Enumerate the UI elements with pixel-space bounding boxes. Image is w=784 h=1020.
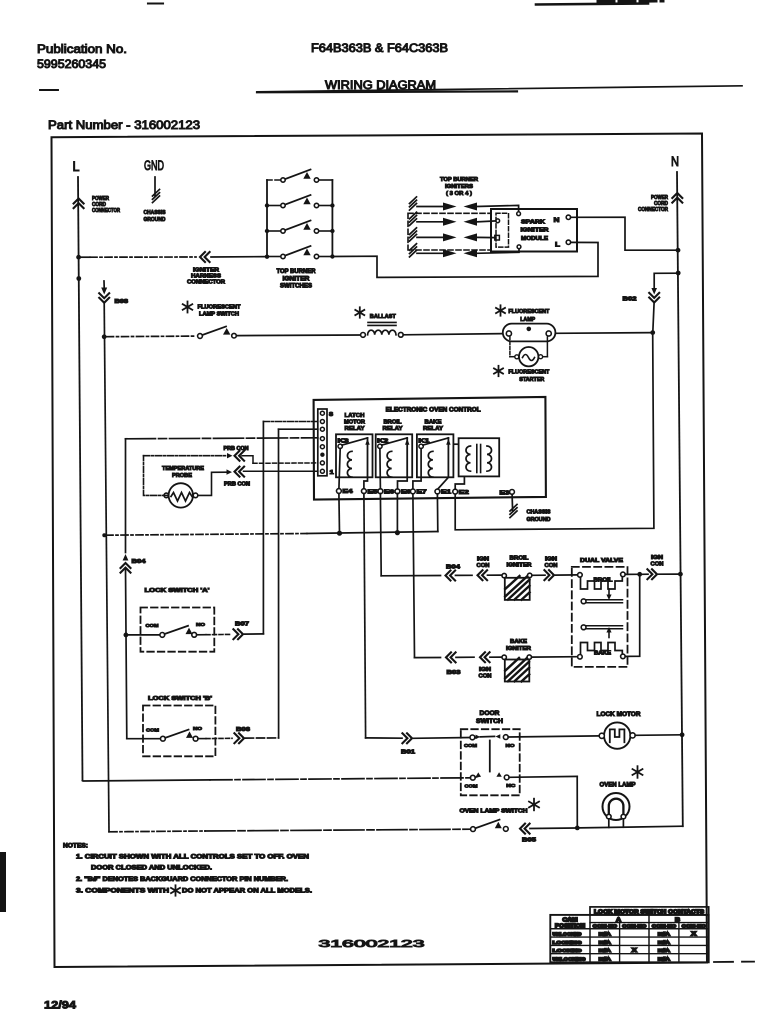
- svg-text:LOCK SWITCH 'B': LOCK SWITCH 'B': [148, 696, 213, 702]
- oven lamp DS1: [637, 766, 639, 778]
- svg-text:B02: B02: [623, 297, 637, 303]
- wire main row to switch bank: [211, 256, 267, 258]
- svg-text:N/A: N/A: [658, 932, 671, 938]
- svg-text:N: N: [671, 154, 679, 169]
- connector B06 chevron: [234, 733, 244, 743]
- EOC terminal E9: [395, 489, 400, 494]
- wire igniter 2 to module: [477, 220, 496, 223]
- svg-text:BAKE: BAKE: [594, 651, 612, 657]
- junction switch rails: [265, 203, 269, 207]
- top burner igniter 2 (spark gap): [410, 212, 417, 219]
- top burner igniter 1 (spark gap): [410, 197, 417, 204]
- junction L rail / main row: [76, 255, 81, 260]
- svg-text:B08: B08: [115, 299, 129, 305]
- svg-text:OVEN LAMP SWITCH: OVEN LAMP SWITCH: [460, 809, 528, 815]
- svg-text:GROUND: GROUND: [144, 217, 166, 223]
- svg-text:CONNECTOR: CONNECTOR: [638, 207, 668, 213]
- svg-text:B07: B07: [235, 622, 249, 628]
- wire broil valve to N rail: [625, 573, 637, 575]
- wire pin2 probe connection: [253, 462, 318, 464]
- wire E6 to broil igniter row: [379, 494, 382, 576]
- svg-text:DUAL VALVE: DUAL VALVE: [580, 558, 623, 564]
- svg-text:BAKE: BAKE: [425, 420, 442, 426]
- relay K2: [376, 434, 413, 477]
- svg-text:CON: CON: [479, 674, 492, 680]
- transformer T1: [459, 438, 500, 476]
- relay K3: [336, 434, 373, 477]
- ballast: [359, 307, 361, 317]
- connector B04 chevron: [123, 554, 129, 561]
- svg-text:POSITION: POSITION: [555, 924, 585, 930]
- svg-text:COM-NO: COM-NO: [682, 924, 707, 929]
- bake valve solenoid: [581, 625, 586, 630]
- door switch upper contact COM-NO: [470, 735, 475, 740]
- svg-text:LATCH: LATCH: [345, 413, 365, 419]
- svg-text:B04: B04: [132, 559, 147, 565]
- svg-text:DOOR CLOSED AND UNLOCKED.: DOOR CLOSED AND UNLOCKED.: [91, 865, 212, 871]
- svg-text:COM-NC: COM-NC: [593, 924, 618, 929]
- wire pin1 probe connection: [244, 470, 318, 472]
- svg-text:IGNITER: IGNITER: [506, 646, 531, 652]
- svg-text:CON: CON: [545, 563, 558, 569]
- svg-text:E2: E2: [459, 490, 469, 496]
- svg-text:E4: E4: [343, 489, 353, 495]
- svg-text:COM-NC: COM-NC: [652, 924, 677, 929]
- door switch mechanical link: [489, 741, 491, 772]
- EOC terminal E1: [435, 489, 440, 494]
- svg-text:FLUORESCENT: FLUORESCENT: [508, 309, 550, 315]
- wire E3 to chassis ground: [511, 494, 514, 511]
- wire to oven lamp and N rail: [580, 826, 683, 828]
- svg-text:FLUORESCENT: FLUORESCENT: [508, 370, 550, 376]
- dashed enclosure around igniters: [408, 213, 491, 250]
- svg-text:IGNITERS: IGNITERS: [445, 184, 473, 190]
- svg-text:PRB CON: PRB CON: [224, 446, 249, 452]
- svg-text:IGN: IGN: [477, 557, 489, 563]
- junction E4 / node line: [338, 493, 341, 533]
- wire L rail to door switch lower COM: [83, 780, 211, 781]
- wire switch to ballast: [236, 334, 360, 337]
- svg-text:CHASSIS: CHASSIS: [527, 510, 551, 516]
- fluorescent lamp switch: [187, 302, 189, 313]
- wire B02 branch to fluorescent row: [654, 273, 678, 288]
- svg-text:N/A: N/A: [658, 940, 671, 946]
- wire probe upper loop: [144, 456, 169, 496]
- svg-text:BAKE: BAKE: [510, 639, 527, 645]
- scan artifact black bar left edge: [0, 852, 6, 912]
- svg-text:MOTOR: MOTOR: [344, 420, 365, 426]
- svg-text:COM: COM: [464, 743, 477, 749]
- top burner igniter 4 (spark gap): [410, 244, 417, 251]
- svg-text:( 3 OR 4 ): ( 3 OR 4 ): [446, 191, 472, 197]
- EOC terminal E5: [362, 489, 367, 494]
- connector B04 chevron broil row: [446, 571, 456, 581]
- svg-text:CON: CON: [477, 563, 490, 569]
- wire probe lower loop: [198, 472, 227, 495]
- svg-text:UNLOCKED: UNLOCKED: [553, 932, 583, 938]
- svg-text:IGNITER: IGNITER: [283, 276, 311, 282]
- svg-text:L: L: [73, 159, 80, 174]
- svg-text:BROIL: BROIL: [510, 556, 530, 562]
- svg-text:Publication No.: Publication No.: [37, 44, 127, 56]
- svg-text:TOP BURNER: TOP BURNER: [440, 177, 478, 183]
- svg-text:LOCK MOTOR: LOCK MOTOR: [597, 712, 642, 718]
- dual valve assembly: [572, 567, 628, 667]
- connector IGN CON chevron bake left: [480, 652, 490, 662]
- wire N rail: [677, 172, 683, 826]
- connector IGN CON chevron broil left: [478, 570, 488, 580]
- wire lamp to N-side junction: [556, 332, 653, 335]
- EOC terminal E3: [510, 490, 515, 495]
- chassis ground symbol (GND): [153, 189, 160, 196]
- svg-text:MODULE: MODULE: [521, 236, 548, 242]
- svg-text:12/94: 12/94: [44, 1000, 77, 1012]
- svg-text:E7: E7: [417, 490, 427, 496]
- wire GND lead: [154, 177, 156, 196]
- svg-text:UNLOCKING: UNLOCKING: [553, 957, 586, 963]
- svg-text:NO: NO: [506, 743, 515, 749]
- wire bake valve to broil junction: [625, 574, 640, 656]
- junction lock rail / lock switch A: [124, 633, 129, 638]
- svg-text:STARTER: STARTER: [519, 377, 544, 383]
- svg-text:B04: B04: [446, 564, 461, 570]
- junction L rail lower dot: [76, 276, 81, 281]
- wire main row L to igniter connector: [79, 256, 90, 258]
- wire transformer to E2: [455, 476, 464, 489]
- svg-text:L: L: [555, 242, 560, 249]
- svg-text:SWITCH: SWITCH: [476, 719, 503, 725]
- svg-text:NO: NO: [193, 726, 202, 732]
- svg-text:COM-NO: COM-NO: [622, 924, 647, 929]
- wire backguard line to oven lamp switch: [109, 830, 205, 833]
- wire pin7 to lock switch A (B07 line): [263, 421, 317, 423]
- junction N rail / module wire: [676, 248, 681, 253]
- svg-text:N/A: N/A: [658, 957, 671, 963]
- svg-text:A: A: [616, 918, 621, 924]
- igniter harness connector chevron: [200, 252, 210, 262]
- svg-text:B01: B01: [401, 750, 415, 756]
- power cord connector chevron L: [74, 199, 84, 209]
- svg-text:F64B363B & F64C363B: F64B363B & F64C363B: [311, 43, 448, 55]
- connector IGN CON chevron broil right: [544, 570, 554, 580]
- header rule under title: [40, 89, 58, 91]
- scan artifact marks top edge: [148, 2, 163, 4]
- svg-text:N/A: N/A: [599, 948, 612, 954]
- wire lock motor to N rail: [635, 734, 681, 737]
- svg-text:2. "B#" DENOTES BACKGUARD CONN: 2. "B#" DENOTES BACKGUARD CONNECTOR PIN …: [76, 877, 288, 883]
- door switch lower contact COM-NC: [470, 775, 475, 780]
- svg-text:BALLAST: BALLAST: [370, 314, 397, 320]
- connector B05 chevron: [520, 824, 530, 834]
- svg-text:IGNITER: IGNITER: [507, 562, 532, 568]
- junction E9 / node line: [396, 494, 398, 533]
- svg-text:GROUND: GROUND: [527, 517, 551, 523]
- svg-text:N/A: N/A: [599, 957, 612, 963]
- fluorescent starter: [509, 336, 511, 356]
- svg-text:LOCKED: LOCKED: [553, 948, 583, 954]
- svg-text:TEMPERATURE: TEMPERATURE: [162, 466, 204, 472]
- svg-text:LAMP SWITCH: LAMP SWITCH: [199, 312, 239, 318]
- svg-text:E5: E5: [368, 489, 378, 495]
- svg-text:RELAY: RELAY: [383, 426, 403, 432]
- wire door switch NO to lock motor: [508, 736, 599, 737]
- wire module N to N rail: [571, 217, 678, 250]
- wire igniter 1 to module top terminal: [477, 205, 519, 211]
- wire pin5 to lock rail (B04 line): [126, 438, 318, 439]
- svg-text:SWITCHES: SWITCHES: [280, 284, 312, 290]
- wire pin6 to lock switch B (B06 line): [279, 428, 318, 430]
- wire EOC E2 neutral drop: [455, 334, 654, 530]
- svg-text:DO NOT APPEAR ON ALL MODELS.: DO NOT APPEAR ON ALL MODELS.: [182, 889, 312, 895]
- svg-text:IGN: IGN: [651, 555, 663, 561]
- relay K2 leads to E6 E9: [379, 449, 382, 490]
- junction oven lamp branch: [575, 826, 580, 831]
- svg-text:NOTES:: NOTES:: [63, 843, 88, 850]
- EOC terminal E7: [411, 489, 416, 494]
- wire node line dashed from backguard: [102, 533, 106, 537]
- svg-text:CON: CON: [651, 562, 664, 568]
- wire E7 to bake igniter row: [413, 494, 415, 658]
- svg-text:5995260345: 5995260345: [37, 59, 106, 71]
- relay K1 leads to E7 E1: [413, 449, 421, 490]
- svg-text:B06: B06: [236, 727, 250, 733]
- EOC terminal E6: [378, 489, 383, 494]
- junction fluorescent row / backguard line: [102, 334, 107, 339]
- svg-text:BROIL: BROIL: [384, 420, 403, 426]
- igniter switch row 3: [267, 230, 281, 232]
- svg-text:COM: COM: [465, 784, 478, 790]
- svg-text:1. CIRCUIT SHOWN WITH ALL CONT: 1. CIRCUIT SHOWN WITH ALL CONTROLS SET T…: [76, 855, 309, 861]
- junction N rail / lock motor: [680, 732, 685, 737]
- connector IGN CON chevron valve to N: [647, 569, 657, 579]
- svg-text:B: B: [675, 918, 680, 924]
- svg-text:316002123: 316002123: [319, 938, 425, 950]
- power cord connector chevron N: [672, 193, 682, 203]
- spark igniter module U1: [491, 209, 577, 252]
- svg-text:NC: NC: [506, 783, 516, 789]
- svg-text:OVEN LAMP: OVEN LAMP: [600, 783, 636, 789]
- svg-text:LOCK SWITCH 'A': LOCK SWITCH 'A': [145, 588, 211, 594]
- svg-text:Part Number - 316002123: Part Number - 316002123: [48, 120, 200, 132]
- svg-text:RELAY: RELAY: [423, 426, 443, 432]
- broil valve solenoid: [578, 573, 583, 578]
- top burner igniter switches group: [266, 180, 268, 257]
- junction N rail / B02 branch: [676, 271, 681, 276]
- igniter switch row 2: [267, 205, 281, 207]
- svg-text:N/A: N/A: [599, 932, 612, 938]
- electronic oven control box: [314, 397, 546, 500]
- probe connector PRB CON upper chevron: [235, 451, 245, 461]
- wire E1 to node line: [436, 494, 438, 532]
- svg-text:B05: B05: [522, 838, 536, 844]
- junction N rail / valve row: [678, 572, 683, 577]
- svg-text:GND: GND: [144, 158, 164, 173]
- EOC terminal E2: [453, 489, 458, 494]
- border frame: [52, 134, 708, 968]
- wire fluorescent row dashed left: [107, 335, 196, 338]
- igniter switch row 1: [267, 179, 281, 181]
- svg-text:COM: COM: [146, 623, 159, 629]
- wire switch bank to spark module L: [332, 242, 598, 277]
- wire door lower NC to oven lamp branch: [509, 775, 577, 778]
- wire igniter 3 to module: [477, 236, 495, 238]
- top burner igniter 3 (spark gap): [410, 228, 417, 235]
- svg-text:IGN: IGN: [545, 556, 557, 562]
- svg-text:LAMP: LAMP: [520, 317, 535, 323]
- svg-text:CHASSIS: CHASSIS: [144, 210, 166, 216]
- svg-text:NO: NO: [196, 622, 205, 628]
- svg-text:PRB CON: PRB CON: [224, 482, 250, 488]
- svg-text:E9: E9: [401, 490, 411, 496]
- wire E5 to door switch COM (B01): [364, 494, 366, 738]
- lock motor switch contacts table: [550, 907, 708, 963]
- svg-text:CAM: CAM: [563, 917, 578, 923]
- svg-text:IGN: IGN: [479, 667, 491, 673]
- svg-text:FLUORESCENT: FLUORESCENT: [198, 305, 242, 311]
- svg-text:1: 1: [330, 470, 334, 476]
- svg-text:PROBE: PROBE: [172, 473, 192, 479]
- relay K1: [417, 434, 454, 477]
- chassis ground symbol (E3): [510, 504, 517, 511]
- svg-text:N/A: N/A: [658, 948, 671, 954]
- wire igniter 4 to module bottom terminal: [477, 249, 519, 254]
- svg-text:3. COMPONENTS WITH: 3. COMPONENTS WITH: [76, 889, 169, 895]
- wire backguard line B08: [103, 281, 105, 288]
- relay K3 leads to E4 E5: [339, 449, 340, 490]
- svg-text:TOP BURNER: TOP BURNER: [277, 269, 317, 275]
- svg-text:CONNECTOR: CONNECTOR: [187, 280, 225, 286]
- igniter switch row 4: [267, 256, 281, 258]
- svg-text:E1: E1: [441, 490, 451, 496]
- svg-text:ELECTRONIC OVEN CONTROL: ELECTRONIC OVEN CONTROL: [386, 407, 481, 413]
- svg-text:B03: B03: [447, 670, 461, 676]
- junction switch rails bottom: [265, 255, 269, 259]
- svg-text:CONNECTOR: CONNECTOR: [92, 208, 120, 214]
- connector B01 chevron: [402, 733, 412, 743]
- svg-text:8: 8: [329, 412, 333, 418]
- svg-text:DOOR: DOOR: [480, 711, 501, 717]
- svg-text:SPARK: SPARK: [521, 220, 545, 226]
- connector B03 chevron bake row: [446, 652, 456, 662]
- wire node line solid segment: [307, 532, 438, 534]
- fluorescent lamp: [500, 305, 502, 315]
- junction valves: [637, 572, 642, 577]
- EOC terminal E4: [337, 489, 342, 494]
- junction switch rails: [265, 229, 269, 233]
- svg-text:LOCKING: LOCKING: [553, 940, 582, 946]
- wire ballast to fluorescent lamp: [403, 334, 502, 335]
- svg-text:RELAY: RELAY: [345, 426, 365, 432]
- wire L rail: [78, 177, 83, 781]
- svg-text:N/A: N/A: [599, 940, 612, 946]
- EOC connector strip pins 1-8: [318, 409, 327, 476]
- svg-text:E6: E6: [384, 489, 394, 495]
- junction fluorescent row / EOC neutral drop: [650, 330, 655, 335]
- frame bottom dashes right of table: [714, 961, 733, 963]
- connector B07 chevron: [233, 629, 243, 639]
- svg-text:N: N: [554, 217, 560, 224]
- svg-text:COM: COM: [146, 728, 159, 734]
- svg-text:IGNITER: IGNITER: [521, 228, 549, 234]
- svg-text:E3: E3: [500, 490, 510, 496]
